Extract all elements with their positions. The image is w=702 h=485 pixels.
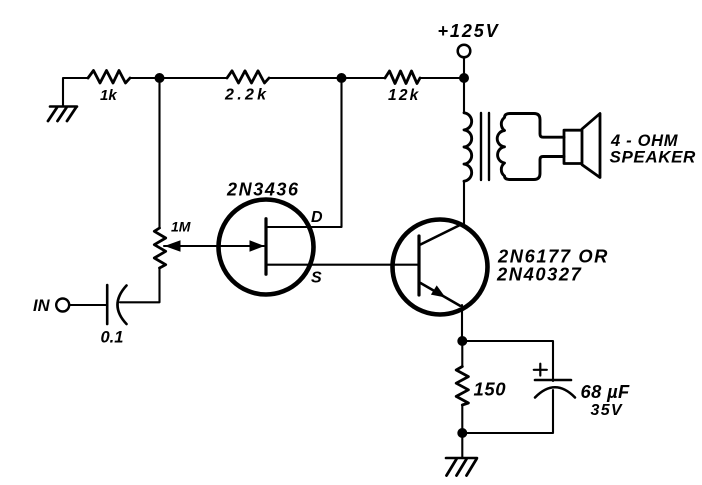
potentiometer R4 1M: [120, 83, 166, 302]
resistor R5 150: [456, 367, 468, 406]
node E junction: [457, 428, 467, 438]
svg-text:0.1: 0.1: [101, 329, 124, 347]
wire input terminal to C2: [69, 304, 107, 306]
transformer T1 primary coil: [464, 113, 472, 181]
svg-text:SPEAKER: SPEAKER: [610, 148, 697, 167]
wire potentiometer bottom to C2: [120, 268, 160, 302]
Q1 channel bar: [264, 219, 267, 275]
+125V supply terminal: [458, 45, 471, 58]
Q1 gate arrowhead: [250, 240, 265, 251]
svg-text:1M: 1M: [171, 219, 191, 235]
Q2 emitter line: [421, 283, 461, 306]
svg-text:68 µF: 68 µF: [581, 381, 631, 402]
wire node C to transformer primary: [463, 78, 465, 113]
node C junction: [459, 73, 469, 83]
wire 12k to node C: [420, 77, 459, 79]
svg-text:1k: 1k: [100, 87, 117, 104]
node D junction: [457, 336, 467, 346]
svg-text:2N3436: 2N3436: [226, 180, 300, 200]
wire Q2 emitter to node D: [461, 305, 463, 337]
wire transformer primary to Q2 collector: [463, 181, 465, 224]
svg-text:D: D: [311, 209, 323, 226]
svg-text:+125V: +125V: [438, 21, 500, 41]
capacitor C3 bottom plate: [535, 387, 575, 397]
transistor Q1 JFET 2N3436 body: [219, 200, 314, 295]
wire R5 to node E: [461, 405, 463, 433]
wire node D to C3: [466, 341, 553, 381]
transformer core: [481, 113, 489, 180]
svg-text:150: 150: [474, 379, 507, 400]
wire node D to R5: [461, 341, 463, 367]
transistor Q2 BJT body: [393, 220, 488, 315]
Q2 base bar: [417, 236, 420, 295]
resistor R3 12k: [385, 71, 420, 84]
wire 2.2k to node B: [269, 77, 337, 79]
label 4-OHM SPEAKER: [610, 132, 697, 167]
svg-text:2N40327: 2N40327: [496, 263, 582, 284]
wire node A to potentiometer: [158, 83, 160, 228]
speaker LS1: [564, 114, 600, 178]
wire ground stub to 1k: [63, 78, 88, 106]
Q1 drain lead wire to node B: [266, 83, 342, 227]
resistor R2 2.2k: [227, 71, 269, 83]
Q2 collector line: [421, 225, 461, 245]
svg-text:35V: 35V: [591, 402, 623, 419]
svg-text:2.2k: 2.2k: [224, 87, 269, 104]
ground: [48, 107, 77, 122]
svg-text:IN: IN: [33, 297, 51, 315]
potentiometer wiper arrowhead: [165, 240, 181, 251]
capacitor C2 0.1: [107, 285, 126, 324]
svg-text:S: S: [311, 270, 322, 287]
wire C3 to node E: [467, 390, 553, 433]
ground 2: [446, 458, 477, 476]
wire node B to 12k: [346, 77, 385, 79]
resistor R1 1k: [88, 71, 130, 84]
input terminal: [56, 299, 69, 312]
capacitor C3 68uF top plate: [535, 379, 571, 382]
wire 1k to node A: [130, 77, 155, 79]
Q1 source lead wire to Q2 base: [266, 264, 419, 266]
svg-text:12k: 12k: [388, 87, 420, 104]
transformer T1 secondary coil: [497, 114, 564, 180]
node A junction: [155, 73, 165, 83]
Q2 emitter arrowhead: [431, 285, 446, 297]
wire node E to ground: [461, 433, 463, 457]
node B junction: [337, 73, 347, 83]
wire terminal to node C: [463, 58, 465, 74]
capacitor C3 plus sign: [534, 364, 547, 376]
Q1 gate wire: [164, 245, 264, 247]
wire node A to 2.2k: [164, 77, 227, 79]
